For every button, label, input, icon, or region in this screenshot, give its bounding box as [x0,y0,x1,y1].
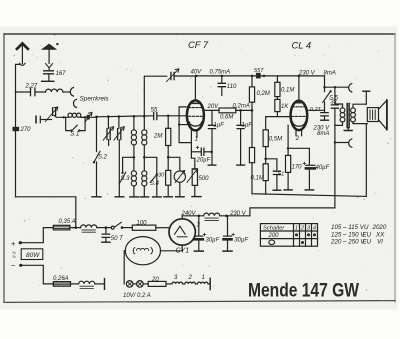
svg-text:55: 55 [151,108,158,114]
CF7 grid side bracket [179,107,191,143]
svg-text:CL 4: CL 4 [292,40,312,51]
resistor 0,6M [219,108,236,113]
node dot coupling [239,109,242,112]
capacitor 30uF first [198,216,200,236]
capacitor 167 [44,71,54,74]
wire to pickup hook lower [335,142,348,144]
tuning coil L lower [131,171,136,176]
resistor 0,2M [251,76,253,87]
svg-text:40µF: 40µF [316,165,330,171]
wire cathode ground rail [252,194,366,197]
tube CL4 envelope [291,101,308,130]
wire S.5 drop from rail [324,76,326,112]
trimmer capacitor grid [171,72,174,79]
svg-text:105 – 115 V: 105 – 115 V [331,224,365,231]
wire tap to switch S.3 [123,157,134,172]
border frame top [4,33,395,35]
svg-text:CF 7: CF 7 [188,39,209,50]
svg-text:1µF: 1µF [214,123,225,129]
node fuse output [75,226,78,229]
svg-text:2: 2 [300,225,304,231]
svg-text:1: 1 [195,136,198,142]
svg-text:33: 33 [331,100,337,106]
trimmer capacitor padding 1 [107,117,109,129]
svg-text:S.3: S.3 [121,176,131,182]
node bus dot coil L [133,115,136,118]
connector hook lower right [349,139,352,147]
svg-text:20: 20 [151,277,159,283]
svg-text:+: + [11,239,16,248]
svg-text:2: 2 [295,136,300,142]
svg-text:0,26A: 0,26A [53,276,69,282]
svg-text:4: 4 [313,225,316,231]
table row3 dot [301,241,304,244]
speaker driver [367,108,378,122]
svg-text:0,1M: 0,1M [281,88,294,94]
trimmer capacitor after coil (squeeze type) [81,116,97,118]
coil of Sperrkreis trap [46,89,63,92]
tuning coil L upper [133,116,135,130]
arrow connector on aux antenna [46,64,53,68]
open terminal bar heater [104,279,106,290]
CL4 internal grid dashes [292,106,305,108]
CF7 pin stub 2 [196,130,198,137]
switch S.1 blade [72,125,78,131]
node rail dot after 55T [263,75,266,78]
svg-text:0,1M: 0,1M [251,176,264,182]
svg-text:3: 3 [307,225,310,231]
svg-text:10V/ 0,2 A: 10V/ 0,2 A [123,293,151,299]
terminal plus [19,241,22,244]
open terminal bar heater end [209,278,211,289]
capacitor 50T [105,228,107,234]
svg-text:0,5M: 0,5M [269,137,282,143]
capacitor 55 in bus [154,112,157,119]
switch S.2 branch [96,117,98,197]
capacitor 51 [266,159,277,171]
svg-text:270: 270 [20,127,32,133]
wire CY1 cathode bottom [160,245,182,251]
svg-text:1: 1 [202,275,205,281]
wire CL4 top cap riser [298,76,300,101]
chassis bar 40uF [305,189,313,191]
capacitor 33 [334,87,336,104]
svg-text:2,27: 2,27 [25,84,38,90]
resistor 0,1M lower [263,164,268,181]
connector hook lower [73,99,76,107]
border frame right [394,34,396,302]
terminal minus [19,264,22,267]
resistor decoupling mid [251,110,253,147]
svg-text:80W: 80W [26,252,40,259]
chassis bar bypass 1 [208,164,216,166]
wire tap to dial lamp [168,157,180,171]
wire 240V line with choke [182,215,203,217]
antenna input plate A [35,116,37,122]
svg-text:125 – 150 V: 125 – 150 V [331,231,365,238]
capacitor 1uF (tone) [240,110,242,125]
svg-text:1: 1 [295,225,298,231]
connector hook upper [70,88,73,97]
node bus dot 2M [167,115,170,118]
node bus dot trimmer1 [107,115,110,118]
dial lamp circle [174,171,185,182]
table row3 O symbol [269,240,275,245]
svg-text:240V: 240V [181,211,197,217]
svg-text:0,2T: 0,2T [310,107,322,113]
chassis bar resistor 30 [164,196,173,198]
node 0,5M junction [264,158,267,161]
chassis bar 50T [102,241,110,243]
asterisk mark [56,43,58,45]
svg-text:200: 200 [268,233,280,239]
heater dropper coil [73,283,78,285]
fuse 0,35A [53,225,70,230]
wire left bottom elbow to supply [16,197,76,228]
node 240V smoothing tap [198,215,201,218]
wire trimmer2 to ground [118,140,120,197]
svg-text:40V: 40V [191,70,203,76]
svg-text:230 V: 230 V [298,71,316,77]
antenna connector hook [20,63,26,65]
wire CY1 anode to 240V [181,216,183,219]
wire minus to fuse 0,26A [21,265,54,284]
trimmer capacitor padding 2 [118,117,120,129]
chassis bar tone cap [237,164,245,166]
svg-text:2020: 2020 [372,224,387,231]
capacitor 40uF electrolytic [288,148,309,165]
svg-text:U: U [364,224,369,231]
dial lamp 2 [137,281,144,288]
CL4 pin stubs [296,130,302,135]
svg-text:20V: 20V [207,104,220,110]
CL4 internal top electrode [295,102,303,104]
svg-text:55T: 55T [254,68,264,74]
CF7 internal grid dashes [188,107,202,109]
svg-text:VI: VI [377,239,383,246]
border frame bottom [4,301,395,303]
border frame left [3,34,5,302]
svg-text:50 T: 50 T [111,236,124,242]
CF7 internal top electrode [191,103,199,105]
svg-text:0,2M: 0,2M [257,91,270,97]
svg-text:500: 500 [199,176,210,182]
svg-text:1µF: 1µF [242,123,253,129]
chassis bar potentiometer [192,196,201,198]
connector hook upper right [349,84,352,92]
switch S.4 blade [150,175,157,183]
transformer box 80W [21,249,43,260]
node hook tap [323,86,325,88]
node cathode junction [287,147,290,150]
wire speaker frame to ground rail [365,124,367,197]
wire tap to switch S.4 [144,157,157,174]
chassis bar S.4 [153,196,162,198]
chassis bar trimmer2 [115,196,124,198]
node CL4 anode rail [298,75,301,78]
wire antenna downlead [16,64,20,92]
ballast lamp circle [125,237,160,265]
CY1 filament [175,226,186,234]
svg-text:S.1: S.1 [70,132,79,138]
wire tuning bus [97,116,154,117]
chassis bar S.2 [92,196,101,198]
wire riser to grid circuit [144,76,167,116]
input coil with S.1 shorting loop [68,113,72,117]
chassis bar coil L [130,196,139,198]
output transformer secondary [353,104,366,108]
rectifier tube CY1 [169,219,195,245]
svg-text:20µF: 20µF [196,158,211,164]
wire between lamps [133,283,137,285]
potentiometer 500 [191,152,194,169]
chassis bar cap 51 [273,189,281,191]
svg-text:0,75mA: 0,75mA [210,70,231,76]
svg-text:30µF: 30µF [206,238,220,244]
resistor 270 (solid) [13,127,20,131]
chassis bar 30uF first [194,250,203,252]
filter choke primary [72,227,80,229]
resistor 0,1M upper [276,76,278,82]
CL4 cathode lead pin 2 [287,125,289,148]
wire output return drop [250,143,335,216]
fuse 0,26A [53,282,70,287]
svg-text:0,6M: 0,6M [220,115,233,121]
resistor 170 [287,148,289,155]
svg-text:EU: EU [363,239,372,246]
speaker cone [379,100,387,129]
node rail dot 0,2M [251,75,254,78]
svg-text:8mA: 8mA [324,71,336,77]
svg-text:110: 110 [227,84,237,90]
capacitor 0,2T [321,113,328,116]
node bus dot coil R [143,115,146,118]
capacitor 20uF cathode [191,151,200,153]
heater winding tap 1 [197,282,208,284]
wire to pickup hook upper [325,86,349,88]
node 40V [195,75,198,78]
svg-text:2: 2 [188,275,193,281]
CF7 cathode lead pin 1 [190,130,192,152]
wire downlead to resistor 270 [15,92,17,127]
resistor 2M [167,116,169,129]
dial lamp 1 [126,281,133,288]
svg-text:30µF: 30µF [234,238,248,244]
auxiliary antenna symbol with mark [43,44,56,49]
resistor 100 [132,225,156,230]
node main bus junction [95,116,98,119]
ballast filament coil [133,248,135,254]
chassis bar under capacitor 167 [42,80,54,82]
node 230V [225,215,228,218]
node capacitor 50T tap [105,226,108,229]
switch S.5 blade [323,91,331,102]
svg-text:100: 100 [137,221,148,227]
tuning coil R lower [142,171,147,176]
capacitor 30uF second [227,216,229,236]
svg-text:EU: EU [363,231,372,238]
CF7 cathode arc [189,122,202,126]
table Schalter grid [260,224,317,247]
node upper hook line to parallel branch [334,86,336,88]
chassis bar 0,2T [321,119,329,121]
wire anode supply rail [196,75,324,77]
heater winding tap 2 [185,282,196,284]
trimmer capacitor (antenna series) [53,108,56,116]
svg-text:2M: 2M [153,134,162,140]
svg-text:167: 167 [56,71,67,77]
resistor 30 [166,170,171,185]
antenna symbol (main) [17,43,28,49]
chassis bar dial lamp [176,196,185,198]
svg-text:1K: 1K [281,104,289,110]
node dot 0,2M bottom [251,109,254,112]
wire CL4 grid line [266,116,291,118]
chassis bar above speaker [363,90,370,92]
table row2 dots [295,233,298,236]
svg-text:Schalter: Schalter [263,226,285,232]
capacitor 2,27 [16,91,46,93]
heater winding tap 3 [166,283,172,285]
svg-text:170: 170 [292,165,303,171]
node rail dot 110 [221,75,224,78]
node lower hook line [334,141,336,143]
resistor chain 0,5M [265,117,267,130]
fuse 55T (solid) on rail [256,73,261,79]
wire 20V anode line [203,109,219,111]
svg-text:Sperrkreis: Sperrkreis [80,96,110,103]
antenna input plate B [39,116,41,122]
filter choke 240V [204,213,220,216]
switch S.3 blade [119,172,126,184]
CL4 cathode arc [293,122,306,126]
scan speckle noise [14,34,391,298]
svg-text:XX: XX [375,231,385,238]
svg-text:8mA: 8mA [317,131,329,137]
svg-text:51: 51 [278,172,284,178]
svg-text:0,35 A: 0,35 A [59,219,76,225]
svg-text:230 V: 230 V [229,211,247,217]
chassis bar coil R [140,196,149,198]
resistor 1K [276,97,278,100]
svg-text:30: 30 [158,173,165,179]
tuning coil R upper [143,116,145,130]
node coil R tap [143,156,146,159]
svg-text:CY1: CY1 [176,248,190,255]
mains switch [106,227,111,229]
capacitor 110 [221,76,223,83]
tube CF7 envelope [187,100,204,130]
svg-text:S.2: S.2 [98,155,108,161]
svg-text:Mende 147 GW: Mende 147 GW [248,281,360,302]
output transformer core [347,104,349,128]
svg-text:220 – 250 V: 220 – 250 V [330,239,365,246]
resistor 20 [148,281,166,286]
svg-text:S.4: S.4 [150,181,160,187]
chassis bar resistor 170 [284,189,292,191]
wire S.4 to ground [156,175,158,197]
wire ballast to lamp string [124,251,125,284]
node 2M tap [167,156,170,159]
output transformer primary [335,104,343,108]
node bus dot trimmer2 [118,115,121,118]
chassis bar transformer core [344,130,352,132]
wire grid cap riser CF7 [194,76,196,101]
wire plus to fuse [20,228,53,243]
chassis bar 30uF second [223,250,232,252]
node 20uF to bypass line [210,151,213,154]
capacitor 1uF (anode bypass) [211,110,213,125]
node coil L tap [133,156,136,159]
svg-text:0,2mA: 0,2mA [233,104,250,110]
